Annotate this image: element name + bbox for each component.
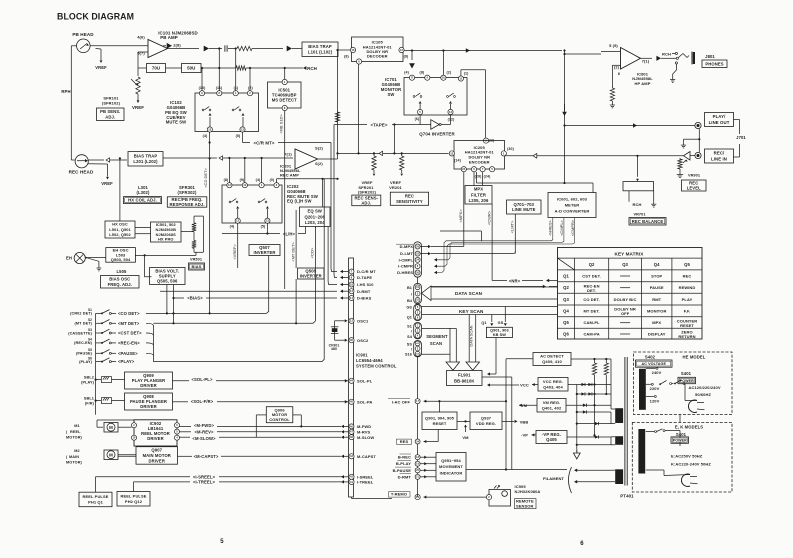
svg-text:PLAY/: PLAY/ [713,114,726,119]
svg-text:IC601, 602, 603: IC601, 602, 603 [557,196,588,201]
open arrow rec chain [219,156,223,160]
svg-text:M-CAPST: M-CAPST [357,454,376,459]
svg-text:INVERTER: INVERTER [254,250,276,255]
wire top feed to IC601 [476,182,593,184]
svg-text:<VREF>: <VREF> [232,244,237,260]
EK plug [646,469,664,471]
svg-text:HE MODEL: HE MODEL [683,355,706,360]
svg-text:DOLBY B/C: DOLBY B/C [614,297,637,302]
diode row C [566,404,611,406]
svg-text:MT DET.: MT DET. [583,309,599,314]
line out jack [695,122,701,128]
svg-text:-VP REG.: -VP REG. [542,432,561,437]
svg-text:REC: REC [683,274,692,279]
svg-text:FILTER: FILTER [471,192,486,197]
VDD REG box [470,412,502,430]
svg-text:REC: REC [405,193,414,198]
svg-text:IC901: IC901 [356,353,368,358]
svg-text:Q4: Q4 [563,309,569,314]
svg-text:M2: M2 [74,449,79,453]
open arrow on encoder wire [379,151,383,155]
trimmer SFR201 [373,152,375,154]
transformer core [624,357,626,486]
arrow hp out [641,57,653,59]
svg-text:HX PRO: HX PRO [158,237,174,242]
svg-text:SENSOR: SENSOR [516,503,534,508]
phones sleeve ground [675,64,677,70]
svg-text:<CO DET>: <CO DET> [118,311,140,316]
arrow play line [466,48,470,53]
svg-text:S16: S16 [405,353,412,357]
svg-text:D-LMT: D-LMT [400,251,413,256]
svg-text:F.F.: F.F. [684,309,691,314]
EQSW bottom stub [315,227,317,228]
svg-text:BIAS TRAP: BIAS TRAP [134,154,158,159]
svg-text:REWIND: REWIND [679,285,696,290]
IC105 dolby NR decoder [352,37,404,62]
key scan bus [422,306,558,308]
svg-text:PB SENS.: PB SENS. [100,109,120,114]
svg-text:L505: L505 [117,269,128,274]
IC102 switch contacts [202,109,204,111]
svg-text:MPX: MPX [652,320,661,325]
wire to hp amp input [565,53,602,55]
Q908 pause plunger driver box [125,393,173,410]
trimmer VR201 [401,152,403,154]
svg-text:RESPONSE ADJ.: RESPONSE ADJ. [169,202,204,207]
mech switch rows [95,313,97,361]
solenoid bus extension [95,362,97,415]
HE selector switch [659,383,661,385]
arrow into PB amp [167,43,172,49]
svg-text:<MPX>: <MPX> [458,209,463,223]
svg-text:(2): (2) [248,86,253,90]
svg-text:D-C/R MT: D-C/R MT [357,269,376,274]
svg-text:S401: S401 [681,371,692,376]
trimmer loop wire [194,215,203,217]
svg-text:KB SW: KB SW [493,333,506,337]
Q701-703 LINE MUTE box [507,200,542,214]
svg-text:7(1): 7(1) [284,152,292,157]
svg-text:4(6): 4(6) [137,35,145,40]
svg-text:<M-CAPST>: <M-CAPST> [194,454,219,459]
svg-text:220V: 220V [650,386,660,391]
svg-text:41: 41 [350,480,354,484]
wire BIAS to pin [174,297,185,299]
volume pot [678,54,683,58]
resistor power 1 [594,359,596,363]
svg-text:<MT DET>: <MT DET> [118,321,140,326]
REC/LINE IN box [705,149,734,163]
wire L/H [266,223,268,233]
EK MODELS dashed box [632,422,732,492]
svg-text:VM: VM [462,435,469,440]
svg-text:Q5: Q5 [684,262,690,267]
svg-text:DRIVER: DRIVER [140,404,156,409]
svg-text:REC AMP: REC AMP [280,173,299,178]
svg-text:S4: S4 [407,335,413,339]
svg-text:D-TAPE: D-TAPE [357,275,372,280]
svg-text:B-REC: B-REC [398,455,411,460]
segment bus stem 1 [422,327,451,329]
svg-text:SENSITIVITY: SENSITIVITY [396,199,423,204]
arrow to RCH [303,66,306,70]
left bus pins D group [349,269,354,274]
svg-text:<MB S1D>: <MB S1D> [279,114,284,134]
monitor sw pin10 riser [442,51,444,75]
resistor power 2 [605,359,607,363]
diode row D [577,411,611,413]
svg-text:MPX: MPX [474,187,483,192]
filament wires [575,469,611,471]
svg-text:<M-REV>: <M-REV> [194,430,214,435]
wire op-amp output [168,48,200,50]
BIAS VOLT SUPPLY box [150,268,186,285]
svg-text:S3: S3 [88,328,92,332]
HE taps [646,367,656,369]
rec balance pot [636,155,638,157]
drops to IC102 switches [201,68,203,91]
wire rec amp to encoder [338,152,449,154]
svg-text:B1: B1 [407,286,412,290]
svg-text:PAUSE: PAUSE [650,285,664,290]
svg-text:Q505, 506: Q505, 506 [157,279,178,284]
svg-text:DATA SCAN: DATA SCAN [455,291,483,296]
svg-text:M: M [109,425,113,430]
svg-text:LEVEL: LEVEL [687,186,701,191]
svg-text:(24): (24) [484,175,491,179]
svg-text:(4): (4) [256,178,261,182]
trimmer hx 1 [181,231,194,233]
AC detect feed vertical [506,358,533,360]
wire EQSW to I-HS pin [328,227,337,285]
svg-text:MOTOR): MOTOR) [66,461,83,465]
svg-text:BIAS: BIAS [192,264,202,269]
svg-text:DECODER: DECODER [367,54,388,59]
70U box [138,67,146,69]
svg-text:44: 44 [350,379,354,383]
svg-text:PB AMP: PB AMP [160,35,178,40]
GS pill [414,304,422,320]
op-amp IC201 REC AMP [295,149,318,169]
svg-text:<PLAY>: <PLAY> [118,359,135,364]
remote sensor module [489,490,511,507]
svg-text:(F/R): (F/R) [85,402,95,406]
svg-text:GS: GS [406,305,412,309]
svg-text:REC/: REC/ [714,151,725,156]
VDD wire [502,420,514,422]
svg-text:ADJ.: ADJ. [361,201,371,206]
REEL PULSE PH1 box [79,492,112,507]
svg-text:<SOL-F/R>: <SOL-F/R> [191,399,214,404]
Q906 motor control box [266,407,293,423]
svg-text:10: 10 [442,76,446,80]
svg-text:E:AC250V 50HZ: E:AC250V 50HZ [671,454,703,459]
arrow before bias trap [252,48,283,50]
svg-text:DET.: DET. [587,288,596,293]
EK switch [655,431,657,433]
svg-text:<CWR>: <CWR> [487,210,492,225]
svg-text:OSC1: OSC1 [357,318,369,323]
Q909 play plunger driver box [125,372,173,389]
wire y231 link [440,230,481,232]
PHONES box [702,60,727,68]
svg-text:RETURN: RETURN [678,334,695,339]
HX COIL ADJ box [124,197,162,204]
svg-text:SCAN: SCAN [430,341,442,346]
svg-text:14: 14 [350,297,353,300]
svg-text:M-FWD: M-FWD [357,424,371,429]
svg-text:Q2: Q2 [589,262,595,267]
diode row bar1 bottom [577,423,611,425]
svg-text:EQ (L)H SW: EQ (L)H SW [287,199,312,204]
svg-text:Q704 INVERTER: Q704 INVERTER [419,132,455,137]
svg-text:<PAUSE>: <PAUSE> [118,351,138,356]
wire CWR down [491,204,493,281]
svg-text:24: 24 [462,167,466,171]
svg-text:GS: GS [498,321,504,325]
svg-text:(8): (8) [344,55,349,59]
svg-text:AC120/220/240V: AC120/220/240V [689,385,721,390]
svg-text:<L/H>: <L/H> [283,231,296,236]
svg-text:(CR02 DET): (CR02 DET) [70,312,93,316]
wire eh osc to trimmer [136,254,197,256]
svg-text:<CO>: <CO> [310,247,315,258]
svg-text:REEL: REEL [70,430,81,434]
svg-text:Q951~954: Q951~954 [441,458,461,463]
PLAY/LINE OUT box [705,113,734,127]
svg-text:LINE MUTE: LINE MUTE [512,207,536,212]
svg-text:Q403, 404: Q403, 404 [543,384,563,389]
svg-text:VM REG.: VM REG. [543,400,561,405]
svg-text:12: 12 [350,319,354,323]
svg-text:DRIVER: DRIVER [147,436,163,441]
svg-text:MONITOR: MONITOR [647,309,667,314]
rec line in wire [690,155,695,157]
OSC pins [349,318,354,323]
svg-text:L203, 204: L203, 204 [305,220,325,225]
svg-text:S402: S402 [645,355,656,360]
open arrow right of encoder [533,154,537,159]
rec level pot [679,158,681,160]
svg-text:Q1: Q1 [407,315,412,319]
resistor on line [335,112,339,122]
svg-text:MOVEMENT: MOVEMENT [439,464,463,469]
svg-text:DISPLAY: DISPLAY [648,332,666,337]
svg-text:Q503, 504: Q503, 504 [111,257,131,262]
HX OSC box [105,221,135,238]
rec line in jack [695,152,701,158]
wire down to HP amp [564,51,566,183]
HE secondary bar [639,369,646,410]
svg-text:BIAS OSC: BIAS OSC [109,277,130,282]
svg-text:I-AC OFF: I-AC OFF [392,399,411,404]
svg-text:<SOL-PL>: <SOL-PL> [191,377,212,382]
svg-text:13: 13 [450,151,454,155]
wire C/R MT to pin [331,143,337,272]
op-amp IC801 HP amp [601,51,621,53]
svg-text:VCC REG.: VCC REG. [543,379,563,384]
svg-text:6: 6 [580,541,584,547]
svg-text:S4: S4 [88,338,92,342]
svg-text:M: M [109,452,113,457]
svg-text:SBL1: SBL1 [84,397,94,401]
svg-text:RES: RES [400,439,409,444]
svg-text:<CD DET>: <CD DET> [203,168,208,188]
svg-text:VCC: VCC [520,382,529,387]
pb sens trimmer arrow [131,79,137,85]
svg-text:CONTROL: CONTROL [269,417,290,422]
REC LEVEL box [682,180,707,191]
svg-text:CO DET.: CO DET. [583,297,599,302]
EQ SW top feed [322,179,324,207]
MOVEMENT INDICATOR box [436,453,466,482]
BIAS TRAP L101 box [302,42,338,57]
motor pins [349,424,354,429]
svg-text:REC BALANCE: REC BALANCE [632,219,664,224]
svg-text:LINE OUT: LINE OUT [709,120,730,125]
VCC REG box [538,378,568,392]
svg-text:Q1: Q1 [481,321,486,325]
svg-text:SOL-PA: SOL-PA [357,399,372,404]
svg-text:RCH: RCH [633,202,642,207]
svg-text:<BIAS>: <BIAS> [187,296,203,301]
Q907 main motor driver box [136,447,178,465]
svg-text:BIAS TRAP: BIAS TRAP [308,44,332,49]
switch hooks common vertical [152,325,154,362]
wire RMT long row [160,290,337,292]
svg-text:I-TREEL: I-TREEL [357,480,374,485]
svg-text:POWER: POWER [673,438,687,442]
jack symbol [691,52,693,65]
svg-text:5(7): 5(7) [137,51,145,56]
gnd power [576,450,578,453]
svg-text:(9): (9) [240,178,245,182]
svg-text:SBL2: SBL2 [84,376,94,380]
svg-text:42: 42 [350,475,354,479]
svg-text:(5): (5) [236,134,241,138]
svg-text:(4): (4) [203,134,208,138]
REC head [75,155,88,168]
svg-text:Q1: Q1 [563,274,569,279]
svg-text:M1: M1 [74,424,79,428]
svg-text:(4): (4) [230,225,235,229]
50U box [166,67,182,69]
svg-text:<LMT>: <LMT> [510,220,515,233]
J701 bracket [734,119,740,121]
svg-text:120V: 120V [650,399,660,404]
svg-text:(PLAY): (PLAY) [81,381,95,385]
svg-text:D-BIAS: D-BIAS [357,296,372,301]
IC901 left bus [349,258,354,497]
svg-text:46: 46 [350,425,353,428]
svg-text:(CASSETTE): (CASSETTE) [68,331,92,335]
svg-text:VR901: VR901 [688,174,700,178]
svg-text:480: 480 [331,347,337,351]
wire RPH vertical [70,46,72,160]
svg-text:KEY SCAN: KEY SCAN [459,309,484,314]
svg-text:PH1 Q1: PH1 Q1 [88,500,104,505]
SS-S16 pill [414,340,422,356]
svg-text:5: 5 [220,539,224,545]
svg-text:METER: METER [565,202,580,207]
SOL pins [349,378,354,383]
svg-text:13: 13 [228,183,232,187]
svg-text:(5): (5) [261,225,266,229]
svg-text:CAM-PA: CAM-PA [583,332,599,337]
FL901 display box [447,371,483,386]
wire MT DET down [237,223,239,243]
S1-S4 pill [414,322,422,338]
diode row B [577,393,611,395]
svg-text:13: 13 [266,219,270,223]
feedback resistor R1 [138,51,148,53]
wire MPX down [463,172,465,247]
wire PB head to amp [90,45,162,47]
svg-text:<HRES>: <HRES> [548,219,553,235]
wire decoder pin8 down [337,50,339,159]
svg-text:D-MPX: D-MPX [400,244,414,249]
AC DETECT box [533,353,571,366]
svg-text:(8): (8) [224,178,229,182]
VREF rec head [88,163,108,165]
EH OSC head [74,252,85,263]
power rail top [571,358,611,360]
svg-text:70U: 70U [152,66,160,71]
NR wire [492,280,507,282]
svg-text:5 (5): 5 (5) [609,43,618,48]
svg-text:MAIN MOTOR: MAIN MOTOR [143,453,171,458]
transformer PT401 secondary bars [615,408,623,423]
svg-text:CST DET.: CST DET. [582,274,601,279]
svg-text:(14): (14) [454,158,461,162]
VREF PB head [100,49,102,60]
wire CUE line down [209,132,211,158]
svg-text:RESET: RESET [680,323,694,328]
play line out wire [565,125,696,127]
VM label between [457,420,470,422]
svg-text:<TAPE>: <TAPE> [370,122,387,127]
power connect wires [679,415,681,423]
svg-text:D-RMT: D-RMT [357,289,371,294]
svg-text:DRIVER: DRIVER [149,458,165,463]
svg-text:MOTOR): MOTOR) [66,436,83,440]
arrow after PB amp [204,46,209,52]
svg-text:AC VOLTAGE: AC VOLTAGE [641,362,666,366]
EQ SW box [300,207,331,227]
svg-text:45: 45 [350,400,354,404]
svg-text:T-REMO: T-REMO [391,491,407,496]
buffer amp rec in [684,152,691,161]
REC BALANCE box [629,218,666,226]
svg-text:INVERTER: INVERTER [300,274,322,279]
svg-text:B4: B4 [407,299,413,303]
svg-text:RPH: RPH [61,89,70,94]
RESET box [422,412,457,430]
Q507 inverter box [249,245,280,256]
svg-text:30: 30 [350,338,354,342]
wire TAPE to pin [334,125,337,278]
svg-text:<NR>: <NR> [509,278,521,283]
wire LMT [514,214,516,254]
VREF amp [137,100,140,103]
svg-text:2(8): 2(8) [173,43,181,48]
wire feedback row [201,67,236,69]
svg-text:PB HEAD: PB HEAD [72,32,94,37]
svg-text:L201 (L202): L201 (L202) [133,159,158,164]
trimmer hx 2 [192,241,196,249]
svg-text:A-D CONVERTER: A-D CONVERTER [555,208,590,213]
